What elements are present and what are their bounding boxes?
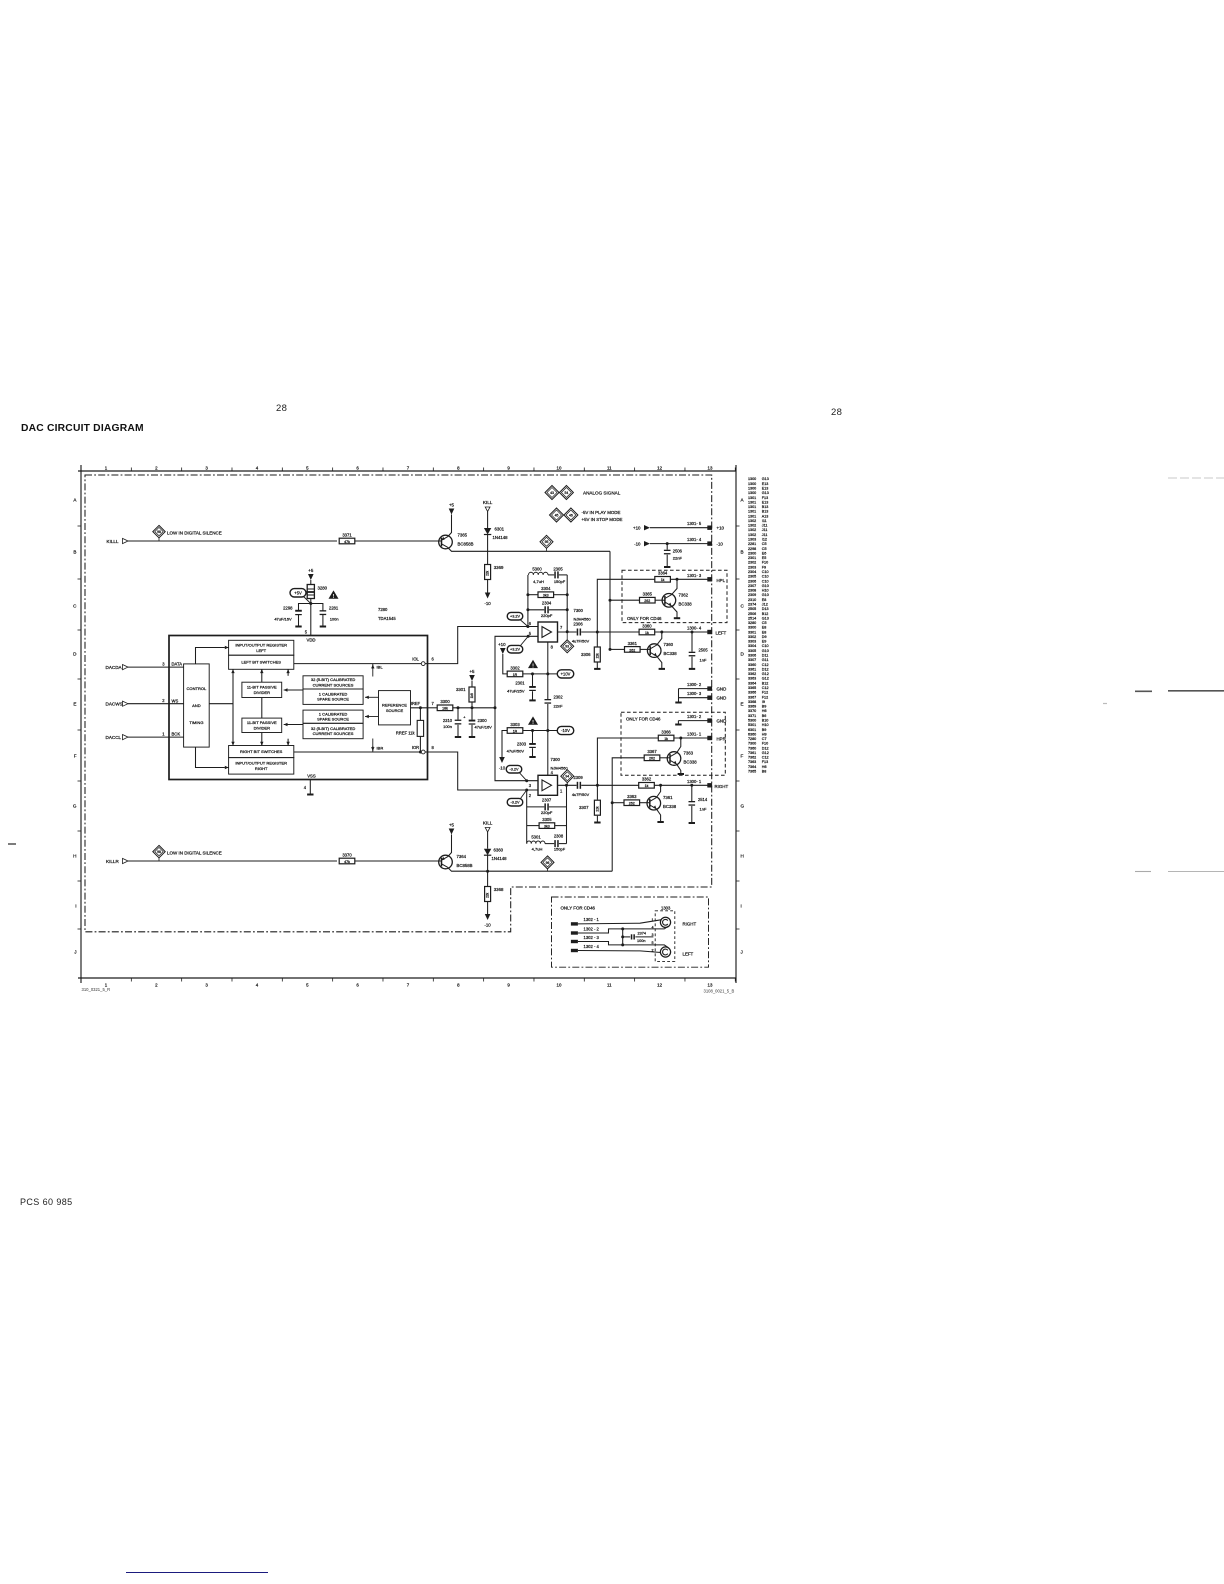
svg-text:D: D (741, 652, 745, 657)
svg-text:3307: 3307 (748, 658, 756, 662)
svg-text:-10: -10 (634, 542, 641, 547)
capacitor 2281 (320, 605, 339, 621)
svg-text:7280: 7280 (748, 737, 756, 741)
svg-text:1301- 3: 1301- 3 (687, 573, 702, 578)
svg-text:1301: 1301 (748, 510, 756, 514)
svg-text:2309: 2309 (573, 775, 583, 780)
ground (529, 699, 535, 701)
svg-text:1300- 2: 1300- 2 (687, 682, 702, 687)
capacitor 2310 (457, 708, 459, 720)
IC block: 11-bit passive divider (right) (242, 718, 282, 732)
wire control to register right (196, 747, 225, 767)
svg-text:+10: +10 (717, 526, 725, 531)
wire +5 to 3301 (471, 681, 473, 687)
svg-text:ONLY FOR CD46: ONLY FOR CD46 (561, 906, 596, 911)
svg-text:8: 8 (457, 983, 460, 988)
wire GND stub join (678, 689, 680, 702)
svg-text:1k: 1k (645, 784, 649, 788)
svg-text:96: 96 (546, 861, 550, 865)
svg-text:3361: 3361 (628, 641, 638, 646)
resistor 3306 (581, 647, 600, 662)
inductor 5300 4.7uH (529, 567, 549, 584)
svg-text:SPARE SOURCE: SPARE SOURCE (317, 697, 349, 702)
svg-text:7360: 7360 (748, 746, 756, 750)
svg-text:G12: G12 (762, 751, 769, 755)
svg-text:47k: 47k (344, 860, 350, 864)
svg-text:93: 93 (565, 645, 569, 649)
svg-text:7300: 7300 (551, 757, 561, 762)
svg-text:2514: 2514 (698, 797, 708, 802)
svg-text:+5V IN STOP MODE: +5V IN STOP MODE (582, 517, 623, 522)
wire 2303 gnd (532, 748, 534, 756)
wire 3301 to IREF node (471, 703, 473, 708)
op-amp U7280 TDA1545 DAC IC (169, 607, 428, 780)
svg-text:J11: J11 (762, 533, 768, 537)
svg-text:7360: 7360 (664, 642, 674, 647)
diamond 93 (566, 632, 568, 640)
resistor RREF 11k (396, 720, 424, 736)
wire 2301 gnd (532, 691, 534, 700)
svg-text:LOW IN DIGITAL SILENCE: LOW IN DIGITAL SILENCE (167, 851, 222, 856)
voltage label +10V (557, 670, 574, 678)
svg-text:DACDA: DACDA (106, 665, 123, 670)
resistor 3367 (644, 749, 660, 761)
svg-text:RREF 11k: RREF 11k (396, 731, 416, 736)
supply +5 (449, 503, 455, 515)
svg-text:47uF/16V: 47uF/16V (475, 724, 493, 729)
svg-text:3k3: 3k3 (543, 594, 549, 598)
svg-text:B9: B9 (762, 705, 767, 709)
svg-text:-3.2V: -3.2V (510, 801, 520, 805)
svg-text:7362: 7362 (748, 756, 756, 760)
svg-text:2305: 2305 (748, 575, 756, 579)
wire 3302 to +10V rail (523, 673, 558, 675)
wire 3369 to -10 (487, 580, 489, 593)
wire IOR inside (294, 751, 428, 753)
svg-text:1302 - 1: 1302 - 1 (584, 917, 600, 922)
svg-text:2305: 2305 (553, 567, 563, 572)
svg-text:3371: 3371 (342, 532, 352, 537)
svg-text:GND: GND (717, 696, 727, 701)
svg-text:I: I (741, 904, 742, 909)
wire reference to spare right (365, 716, 379, 718)
svg-text:2506: 2506 (748, 612, 756, 616)
svg-text:BC858B: BC858B (457, 863, 473, 868)
svg-text:2310: 2310 (443, 718, 453, 723)
svg-text:2301: 2301 (515, 681, 525, 686)
svg-text:1R: 1R (513, 673, 518, 677)
resistor 3280 (307, 585, 327, 599)
svg-text:G10: G10 (762, 649, 769, 653)
diode 6301 1N4148 (484, 527, 508, 541)
svg-text:2: 2 (155, 983, 158, 988)
wire 2281 to ground (322, 615, 324, 626)
svg-text:7361: 7361 (748, 751, 756, 755)
IC block: right bit switches (229, 746, 294, 758)
svg-text:D9: D9 (762, 635, 767, 639)
resistor 3361 (625, 641, 641, 653)
wire IREF inside (411, 707, 428, 709)
svg-text:J: J (741, 950, 743, 955)
svg-text:4: 4 (304, 785, 307, 790)
svg-text:DACWS: DACWS (106, 701, 123, 706)
svg-text:43: 43 (550, 491, 554, 495)
svg-text:F13: F13 (762, 496, 768, 500)
svg-text:3280: 3280 (748, 621, 756, 625)
svg-text:3: 3 (205, 466, 208, 471)
wire 7365 emitter to +5 (448, 515, 452, 537)
IC block: 32 calibrated current sources (left) (303, 676, 363, 689)
wire KILLL to 3371 (128, 540, 337, 542)
svg-text:5: 5 (652, 941, 654, 945)
svg-text:1301- 5: 1301- 5 (687, 521, 702, 526)
svg-text:C: C (741, 604, 745, 609)
svg-text:BC338: BC338 (663, 804, 677, 809)
node DACWS (106, 698, 184, 706)
diode 6360 1N4148 (484, 848, 507, 862)
svg-text:1302: 1302 (748, 533, 756, 537)
capacitor 2302 (547, 674, 549, 699)
svg-text:2281: 2281 (329, 605, 339, 610)
svg-text:1300- 1: 1300- 1 (687, 779, 702, 784)
svg-text:7: 7 (407, 983, 410, 988)
ground (674, 617, 680, 619)
svg-text:18k: 18k (442, 707, 448, 711)
svg-text:F10: F10 (762, 742, 768, 746)
wire -10 branch (502, 731, 507, 758)
svg-text:98: 98 (157, 530, 161, 534)
svg-text:D11: D11 (762, 654, 769, 658)
svg-text:46: 46 (569, 513, 573, 517)
svg-text:C12: C12 (762, 756, 769, 760)
svg-text:+5: +5 (449, 503, 455, 508)
svg-text:22nF: 22nF (673, 556, 683, 561)
wire 2305 to rail (559, 574, 567, 576)
svg-text:+5: +5 (308, 568, 314, 573)
svg-text:D12: D12 (762, 667, 769, 671)
resistor 3368 (485, 887, 504, 902)
svg-text:1: 1 (162, 732, 165, 737)
capacitor 2309 4u7F/50V (572, 775, 590, 797)
svg-text:D13: D13 (762, 607, 769, 611)
svg-text:7362: 7362 (679, 593, 689, 598)
svg-text:5300: 5300 (748, 718, 756, 722)
svg-text:2: 2 (155, 466, 158, 471)
svg-text:C5: C5 (762, 547, 767, 551)
svg-text:+5: +5 (449, 823, 455, 828)
wire KILL to diode 6360 (487, 832, 489, 849)
svg-text:DACCL: DACCL (106, 735, 122, 740)
wire HPR tap vertical (597, 738, 658, 785)
ground (529, 756, 535, 758)
wire 7364 emitter to +5 (448, 835, 452, 857)
svg-text:HPL: HPL (717, 578, 726, 583)
dashed box ONLY FOR CD46 (headphone right) (621, 712, 725, 775)
svg-text:CURRENT SOURCES: CURRENT SOURCES (313, 682, 354, 687)
svg-text:B: B (73, 550, 76, 555)
resistor 3360 (639, 623, 655, 635)
node DACCL (106, 732, 184, 740)
wire IREF out (428, 707, 438, 709)
svg-text:1: 1 (105, 466, 108, 471)
wire 7361 collector (656, 785, 660, 797)
wire LEFT line (581, 631, 639, 633)
ground (675, 702, 681, 704)
wire sources to divider right (284, 724, 303, 726)
wire to 3361 (610, 648, 624, 650)
svg-text:11: 11 (607, 466, 612, 471)
ground (594, 668, 600, 670)
svg-text:-10: -10 (484, 923, 491, 928)
svg-text:G12: G12 (762, 672, 769, 676)
svg-text:TIMING: TIMING (189, 720, 203, 725)
svg-text:AND: AND (192, 703, 201, 708)
svg-text:B12: B12 (762, 681, 769, 685)
svg-text:NJM4560: NJM4560 (551, 766, 569, 771)
svg-text:3363: 3363 (627, 794, 637, 799)
supply +10 (498, 642, 506, 654)
svg-text:7363: 7363 (684, 751, 694, 756)
svg-text:22k: 22k (486, 570, 490, 576)
ground (675, 724, 681, 726)
svg-text:H: H (741, 854, 744, 859)
wire opamp A output (558, 631, 577, 633)
svg-text:3362: 3362 (748, 672, 756, 676)
feedback row 3305 (527, 825, 539, 827)
svg-text:6301: 6301 (495, 527, 505, 532)
svg-text:47uF/16V: 47uF/16V (274, 616, 292, 621)
svg-text:3300: 3300 (748, 626, 756, 630)
scan artifact dashes (1168, 477, 1224, 479)
wire IOL long run to pin 6 (428, 627, 539, 664)
ground (320, 626, 326, 628)
wire 1302-1 to jack right (578, 920, 661, 924)
wire KILLR wire to 3368 (487, 871, 489, 886)
svg-text:13: 13 (708, 983, 713, 988)
svg-text:H6: H6 (762, 709, 767, 713)
resistor 3301 (456, 687, 475, 702)
svg-text:1303: 1303 (748, 538, 756, 542)
svg-text:IBR: IBR (377, 746, 384, 751)
svg-text:H6: H6 (762, 765, 767, 769)
svg-text:47uF/50V: 47uF/50V (507, 749, 525, 754)
transistor 7364 BC858B (439, 854, 473, 869)
svg-text:KILL: KILL (483, 821, 493, 826)
svg-text:2309: 2309 (748, 593, 756, 597)
wire 1301-2 gnd (677, 721, 679, 724)
svg-text:3303: 3303 (510, 722, 520, 727)
svg-text:22nF: 22nF (554, 704, 564, 709)
wire 2298 to ground (298, 615, 300, 626)
svg-text:KILL: KILL (483, 500, 493, 505)
voltage label -10V (557, 726, 574, 734)
voltage label -3.2V (507, 798, 523, 806)
wire 7360 emitter (657, 656, 662, 668)
svg-text:7: 7 (560, 625, 563, 630)
svg-text:100n: 100n (637, 939, 645, 943)
svg-text:10: 10 (557, 466, 562, 471)
svg-text:2302: 2302 (554, 694, 564, 699)
IC block: 32 calibrated current sources (right) (303, 723, 363, 738)
svg-text:F10: F10 (762, 561, 768, 565)
wire divider bus right (287, 669, 289, 676)
svg-text:BC338: BC338 (664, 651, 678, 656)
svg-text:3366: 3366 (661, 729, 671, 734)
svg-text:6: 6 (356, 466, 359, 471)
signal diamond 95 (540, 535, 553, 548)
wire +10 branch (503, 654, 507, 674)
op-amp 7300 (B) NJM4560 (538, 775, 558, 795)
wire KILLL drive vertical (609, 551, 611, 649)
svg-text:F: F (74, 754, 77, 759)
svg-text:3: 3 (529, 783, 532, 788)
svg-text:3366: 3366 (748, 691, 756, 695)
capacitor 2305 150pF (553, 567, 565, 584)
svg-text:7361: 7361 (663, 795, 673, 800)
node GND 1300-3 (679, 691, 727, 701)
svg-text:SOURCE: SOURCE (386, 708, 404, 713)
wire 2302 to -10V rail (547, 704, 549, 731)
svg-text:1302: 1302 (748, 524, 756, 528)
wire IBL (372, 664, 374, 677)
svg-text:7365: 7365 (748, 770, 756, 774)
svg-text:2307: 2307 (542, 798, 552, 803)
svg-text:VDD: VDD (306, 638, 315, 643)
resistor 3303 (507, 722, 523, 734)
svg-text:6360: 6360 (494, 848, 504, 853)
svg-text:5: 5 (306, 466, 309, 471)
svg-text:1300: 1300 (748, 482, 756, 486)
wire V+ rail to opamp pin8 (547, 642, 549, 674)
wire oval tap pin6 (521, 620, 528, 627)
resistor 3369 (485, 565, 504, 580)
resistor 3364 (655, 571, 671, 583)
svg-text:E13: E13 (762, 500, 769, 504)
wire 2514 gnd (691, 806, 693, 822)
svg-text:22k: 22k (486, 892, 490, 898)
wire 7362 collector (672, 579, 678, 594)
svg-text:3280: 3280 (318, 586, 328, 591)
svg-text:BC338: BC338 (684, 760, 698, 765)
resistor 3365 (640, 592, 656, 604)
ground (307, 794, 313, 796)
wire 1302-3 shield (578, 942, 668, 948)
svg-text:-5V IN PLAY MODE: -5V IN PLAY MODE (582, 510, 621, 515)
wire IOR long run to pin 2 (428, 752, 539, 790)
wire RREF (419, 708, 421, 721)
transistor 7365 BC858B (439, 533, 474, 549)
svg-text:BCK: BCK (172, 732, 181, 737)
svg-text:+5: +5 (469, 669, 475, 674)
svg-text:1300: 1300 (748, 477, 756, 481)
wire to 2281 (311, 604, 323, 611)
svg-text:3364: 3364 (658, 571, 668, 576)
signal diamond 93 (561, 640, 574, 653)
supply +5 (469, 669, 475, 681)
wire 2300 gnd (471, 725, 473, 737)
ground (689, 822, 695, 824)
wire 7363 collector (677, 738, 681, 753)
svg-text:A: A (73, 498, 77, 503)
svg-text:7: 7 (407, 466, 410, 471)
svg-text:4: 4 (652, 925, 654, 929)
svg-text:G: G (73, 804, 77, 809)
svg-text:6: 6 (432, 657, 435, 662)
supply -10 (484, 593, 491, 607)
svg-text:DIVIDER: DIVIDER (254, 725, 270, 730)
svg-text:3362: 3362 (642, 777, 652, 782)
diamond 95 (546, 548, 548, 551)
svg-text:+: + (463, 716, 466, 720)
svg-text:H: H (73, 854, 76, 859)
svg-text:1300- 4: 1300- 4 (687, 626, 702, 631)
wire 3361 to 7360 base (640, 648, 650, 650)
svg-text:RIGHT: RIGHT (255, 766, 268, 771)
svg-text:C5: C5 (762, 542, 767, 546)
svg-text:D: D (73, 652, 77, 657)
supply +5 (449, 823, 455, 835)
resistor 3302 (507, 665, 523, 677)
resistor 3305 (539, 817, 555, 829)
svg-text:2: 2 (652, 949, 654, 953)
svg-text:E13: E13 (762, 482, 769, 486)
IC block: control and timing (184, 664, 210, 747)
svg-text:6301: 6301 (748, 728, 756, 732)
svg-text:3108_0021_5_B: 3108_0021_5_B (704, 989, 735, 994)
svg-text:2303: 2303 (748, 565, 756, 569)
wire 3365 to 7362 base (655, 599, 665, 601)
net reference list (748, 477, 769, 773)
svg-text:F13: F13 (762, 760, 768, 764)
svg-text:150pF: 150pF (554, 579, 566, 584)
svg-text:2300: 2300 (478, 718, 488, 723)
wire 2374 to jack pin 3 (635, 936, 653, 938)
svg-text:7300: 7300 (574, 608, 584, 613)
svg-text:F9: F9 (762, 565, 766, 569)
svg-text:4u7F/50V: 4u7F/50V (572, 792, 590, 797)
svg-text:2298: 2298 (748, 547, 756, 551)
svg-text:C10: C10 (762, 644, 769, 648)
schematic frame (73, 465, 745, 988)
svg-text:2: 2 (162, 698, 165, 703)
svg-text:!: ! (532, 664, 534, 670)
svg-text:6360: 6360 (748, 732, 756, 736)
capacitor 2307 (541, 798, 553, 815)
wire 1302-4 to jack left (578, 951, 661, 953)
svg-text:G12: G12 (762, 677, 769, 681)
resistor 3307 (579, 800, 600, 815)
wire control to register left (196, 648, 225, 664)
svg-text:+10: +10 (633, 526, 641, 531)
svg-text:B13: B13 (762, 510, 769, 514)
svg-text:22k: 22k (595, 806, 599, 812)
IC block: input/output register left (229, 640, 294, 655)
svg-text:E8: E8 (762, 626, 767, 630)
svg-text:100n: 100n (330, 616, 339, 621)
wire to 3363 (612, 802, 624, 804)
svg-text:5: 5 (306, 983, 309, 988)
IC block: reference source (379, 691, 411, 725)
wire 3303 to -10V rail (523, 730, 557, 732)
svg-text:1301- 4: 1301- 4 (687, 537, 702, 542)
svg-text:3300: 3300 (440, 699, 450, 704)
svg-text:I12: I12 (762, 538, 767, 542)
svg-text:1300: 1300 (748, 491, 756, 495)
svg-text:E8: E8 (762, 598, 767, 602)
svg-text:B9: B9 (762, 728, 767, 732)
svg-text:3365: 3365 (748, 686, 756, 690)
svg-text:ONLY FOR CD46: ONLY FOR CD46 (626, 717, 661, 722)
